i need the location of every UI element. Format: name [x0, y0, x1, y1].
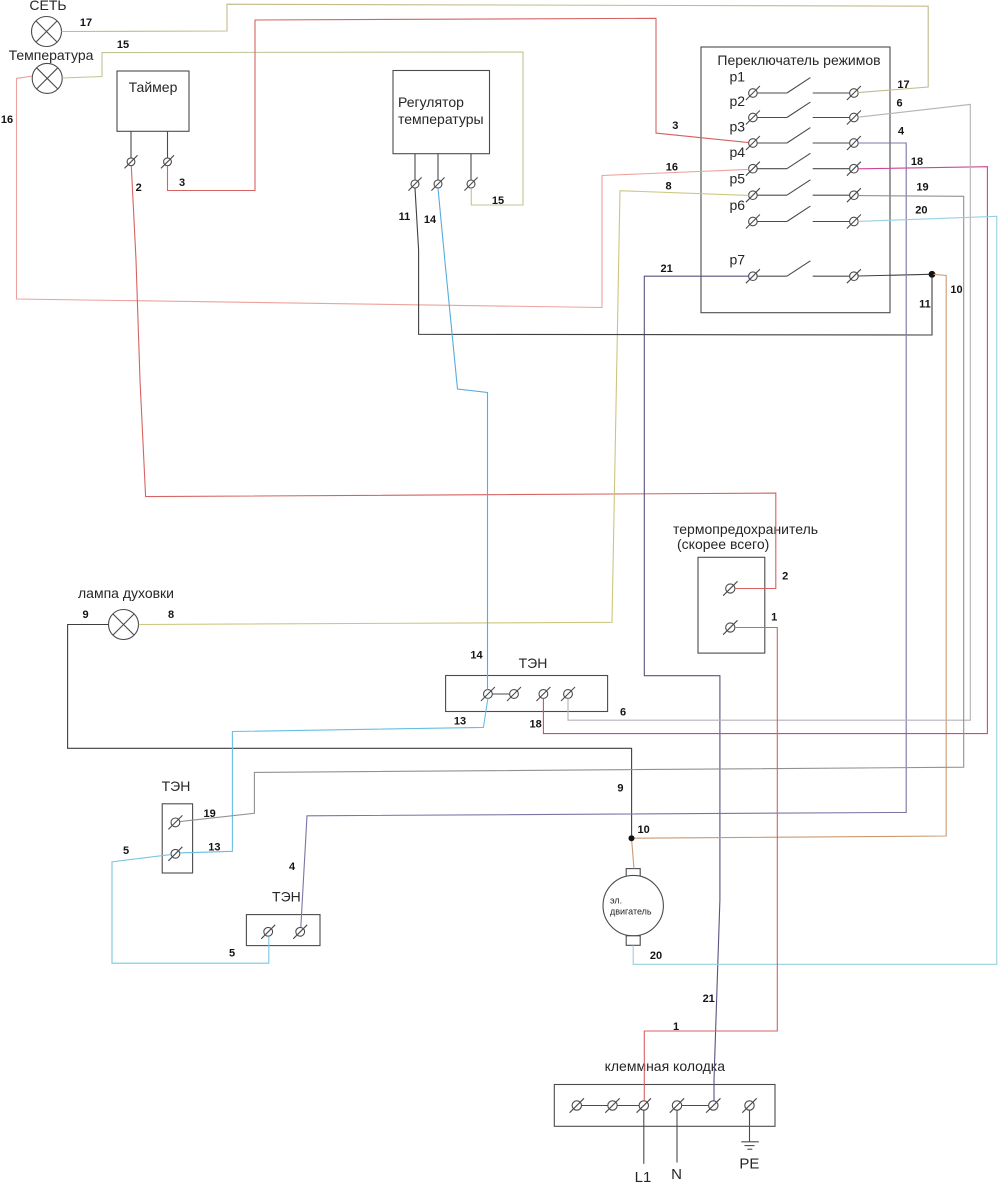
- left heater terminal 19: [168, 815, 182, 829]
- svg-text:9: 9: [82, 609, 88, 621]
- svg-text:p7: p7: [730, 252, 746, 268]
- heater block ТЭН (bottom, horizontal): [246, 889, 320, 946]
- svg-text:2: 2: [782, 571, 788, 583]
- svg-text:6: 6: [620, 707, 626, 719]
- svg-text:двигатель: двигатель: [610, 907, 652, 917]
- svg-text:ТЭН: ТЭН: [162, 778, 191, 794]
- svg-text:ТЭН: ТЭН: [272, 889, 301, 905]
- bottom heater terminal 5: [261, 925, 275, 939]
- svg-text:p4: p4: [730, 144, 746, 160]
- wire 17 (СЕТЬ lamp to p1 right): [62, 4, 929, 92]
- svg-text:PE: PE: [739, 1156, 759, 1173]
- wire 1 (thermal fuse 1 to terminal block L1): [644, 628, 777, 1101]
- wire p7 right to junction: [858, 274, 929, 276]
- heater block ТЭН (main, top): [446, 655, 608, 712]
- wire 20 (p6 right to motor): [633, 216, 997, 964]
- wire 19 (p5 right to left heater): [180, 196, 964, 822]
- terminal block terminal 2: [605, 1098, 619, 1112]
- svg-text:18: 18: [911, 156, 923, 168]
- terminal block terminal 3 (L1): [637, 1098, 651, 1112]
- svg-text:p5: p5: [730, 171, 746, 187]
- svg-text:3: 3: [179, 177, 185, 189]
- heater ТЭН terminal 14: [481, 687, 495, 701]
- svg-text:N: N: [671, 1166, 682, 1182]
- svg-text:8: 8: [666, 180, 672, 192]
- svg-text:4: 4: [898, 126, 905, 138]
- switch p2: [730, 93, 861, 125]
- heater block ТЭН (left, vertical): [162, 778, 193, 873]
- svg-text:20: 20: [650, 950, 662, 962]
- thermal fuse terminal 2: [723, 581, 737, 595]
- svg-text:лампа духовки: лампа духовки: [78, 585, 174, 601]
- thermal fuse block термопредохранитель: [673, 521, 818, 653]
- svg-text:1: 1: [673, 1021, 679, 1033]
- wire 16 (Температура lamp to p4 left): [17, 76, 749, 307]
- svg-text:10: 10: [950, 284, 962, 296]
- svg-text:4: 4: [289, 861, 296, 873]
- wire 13 (heater ТЭН to left heater): [180, 698, 488, 853]
- wire 2 (timer 2 to thermal fuse 2): [131, 166, 776, 589]
- svg-text:термопредохранитель: термопредохранитель: [673, 521, 818, 537]
- regulator terminal 14: [431, 177, 444, 190]
- svg-text:14: 14: [470, 650, 483, 662]
- svg-text:Таймер: Таймер: [129, 79, 178, 95]
- svg-text:p3: p3: [730, 119, 746, 135]
- svg-text:p1: p1: [730, 69, 746, 85]
- wire 10 (junction to motor): [634, 274, 946, 838]
- wire 5 (left heater to bottom heater): [112, 855, 269, 964]
- svg-text:Температура: Температура: [9, 47, 94, 63]
- timer terminal 3: [161, 155, 174, 168]
- svg-text:эл.: эл.: [610, 896, 622, 906]
- timer terminal 2: [125, 155, 138, 168]
- svg-text:Переключатель режимов: Переключатель режимов: [717, 52, 880, 68]
- wire 21 (p7 left to terminal block 5): [644, 276, 748, 1101]
- heater ТЭН terminal 18: [536, 687, 550, 701]
- wire 11 (regulator 11 to junction): [415, 188, 932, 335]
- timer block Таймер: [117, 71, 189, 158]
- switch p3: [730, 119, 861, 151]
- svg-text:p2: p2: [730, 93, 746, 109]
- svg-text:14: 14: [424, 214, 437, 226]
- svg-text:17: 17: [80, 17, 92, 29]
- switch p1: [730, 69, 861, 101]
- svg-text:2: 2: [136, 182, 142, 194]
- svg-text:Регулятор: Регулятор: [398, 94, 464, 110]
- svg-text:6: 6: [896, 98, 902, 110]
- lead L1: [635, 1110, 652, 1182]
- svg-text:клеммная колодка: клеммная колодка: [605, 1058, 726, 1074]
- svg-text:L1: L1: [635, 1169, 652, 1182]
- wire 14 (regulator 14 to heater ТЭН): [438, 188, 488, 690]
- wire 3 (timer 3 to p3 left): [168, 18, 749, 190]
- wire 8 (oven lamp to p5 left): [139, 191, 749, 625]
- svg-text:СЕТЬ: СЕТЬ: [29, 0, 66, 13]
- regulator terminal 11: [408, 177, 421, 190]
- junction node motor 10: [629, 835, 635, 841]
- terminal block клеммная колодка: [554, 1058, 775, 1126]
- lamp Температура (temperature indicator): [9, 47, 94, 93]
- svg-text:ТЭН: ТЭН: [519, 655, 548, 671]
- motor эл. двигатель: [603, 869, 663, 946]
- svg-text:11: 11: [399, 211, 411, 223]
- svg-text:5: 5: [123, 845, 129, 857]
- svg-text:8: 8: [168, 609, 174, 621]
- bottom heater terminal 4: [293, 925, 307, 939]
- svg-text:(скорее всего): (скорее всего): [677, 536, 769, 552]
- wire 9 (oven lamp to motor junction): [68, 625, 632, 836]
- heater ТЭН terminal 6: [561, 687, 575, 701]
- svg-text:18: 18: [529, 719, 541, 731]
- svg-text:9: 9: [617, 783, 623, 795]
- svg-text:17: 17: [897, 79, 909, 91]
- svg-text:5: 5: [229, 948, 235, 960]
- svg-text:3: 3: [672, 120, 678, 132]
- svg-text:21: 21: [660, 263, 672, 275]
- lamp СЕТЬ (mains indicator): [29, 0, 66, 47]
- wire 4 (p3 right to bottom heater): [301, 143, 906, 927]
- wire 15 (Температура lamp to regulator 15): [62, 52, 523, 205]
- ground PE: [739, 1110, 759, 1173]
- mode switch box Переключатель режимов: [701, 47, 890, 313]
- regulator block Регулятор температуры: [393, 71, 490, 181]
- wire 18 (p4 right to heater ТЭН): [543, 167, 987, 734]
- svg-text:11: 11: [919, 299, 931, 311]
- switch p6: [730, 197, 861, 229]
- switch p4: [730, 144, 861, 176]
- svg-text:16: 16: [1, 114, 13, 126]
- junction node 10/11: [929, 271, 936, 278]
- svg-text:13: 13: [454, 716, 466, 728]
- terminal block terminal 6 (PE): [742, 1098, 756, 1112]
- oven lamp лампа духовки: [78, 585, 174, 640]
- switch p7: [730, 252, 861, 284]
- svg-text:1: 1: [771, 612, 777, 624]
- left heater terminal 13: [168, 847, 182, 861]
- lead N: [671, 1110, 682, 1182]
- switch p5: [730, 171, 861, 203]
- svg-text:20: 20: [915, 205, 927, 217]
- svg-text:10: 10: [637, 824, 649, 836]
- svg-text:температуры: температуры: [398, 111, 484, 127]
- wire 6 (p2 right to heater ТЭН): [568, 104, 970, 720]
- terminal block terminal 1: [570, 1098, 584, 1112]
- regulator terminal 15: [464, 177, 477, 190]
- terminal block terminal 5: [706, 1098, 720, 1112]
- heater ТЭН terminal 13: [507, 687, 521, 701]
- svg-text:15: 15: [117, 39, 129, 51]
- thermal fuse terminal 1: [723, 620, 737, 634]
- svg-text:16: 16: [666, 162, 678, 174]
- svg-text:21: 21: [703, 993, 715, 1005]
- terminal block terminal 4 (N): [670, 1098, 684, 1112]
- wire 10 motor lead: [632, 838, 635, 868]
- svg-text:p6: p6: [730, 197, 746, 213]
- svg-text:19: 19: [916, 182, 928, 194]
